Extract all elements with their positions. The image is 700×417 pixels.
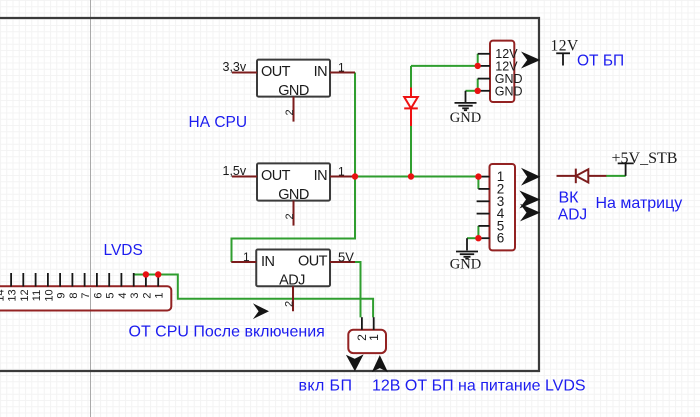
svg-text:OUT: OUT: [298, 254, 328, 270]
svg-text:GND: GND: [450, 110, 481, 126]
regulator U2 1.5v: [257, 163, 330, 202]
J2 pin 6 stub: [478, 237, 489, 239]
wire diode branch below diode: [410, 126, 412, 177]
svg-text:12В ОТ БП на питание LVDS: 12В ОТ БП на питание LVDS: [372, 378, 586, 395]
connector J3 LVDS box: [0, 286, 171, 310]
wire J2 gnd to ground symbol: [467, 237, 478, 239]
J2 pin 4 stub: [477, 213, 490, 215]
U1 pin OUT: [232, 72, 257, 74]
junction at J1 GND pins: [475, 88, 481, 94]
LVDS pin 9 stub: [59, 273, 61, 287]
LVDS pin 12 stub: [22, 273, 24, 287]
arrow to 12V flag: [521, 52, 540, 69]
svg-text:IN: IN: [314, 168, 327, 184]
svg-text:2: 2: [284, 213, 296, 219]
LVDS pin 2 stub: [145, 273, 147, 287]
wire U3 OUT 5V down to J3 pin2: [354, 262, 361, 317]
svg-text:5: 5: [105, 292, 117, 298]
svg-text:2: 2: [141, 292, 153, 298]
J2 pin 5 stub: [478, 225, 489, 227]
svg-text:IN: IN: [261, 254, 274, 270]
svg-text:1: 1: [154, 292, 166, 298]
svg-text:IN: IN: [314, 64, 327, 80]
U1 pin IN 1: [330, 72, 355, 74]
svg-text:1: 1: [243, 250, 250, 264]
wire U1 IN down to main node: [354, 73, 356, 177]
wire J1 pin3 drop to pin4 junction: [477, 79, 479, 91]
svg-text:1,5v: 1,5v: [223, 164, 247, 178]
svg-text:12: 12: [19, 289, 31, 301]
LVDS pin 10 stub: [47, 273, 49, 287]
connector J1 12V box: [490, 41, 523, 102]
J1 pin GND stub 3: [478, 78, 490, 80]
svg-text:2: 2: [284, 109, 296, 115]
svg-text:9: 9: [56, 292, 68, 298]
svg-text:14: 14: [0, 289, 6, 301]
U2 pin IN 1: [330, 176, 355, 178]
svg-text:вкл БП: вкл БП: [299, 378, 353, 395]
wire main node down and to U3 IN: [232, 177, 356, 263]
U2 pin OUT: [232, 176, 257, 178]
svg-text:ОТ CPU После включения: ОТ CPU После включения: [129, 324, 325, 341]
arrow OT CPU: [253, 303, 269, 319]
wire J1 pin1 drop to junction: [477, 54, 479, 66]
sheet border: [0, 18, 539, 371]
U3 pin IN 1: [231, 261, 256, 263]
arrow down to border: [346, 354, 364, 371]
LVDS pin 13 stub: [10, 273, 12, 287]
J2 pin 3 stub: [477, 200, 490, 202]
page frame gray vertical line: [90, 0, 92, 417]
svg-text:11: 11: [31, 290, 43, 301]
LVDS pin 11 stub: [35, 273, 37, 287]
diode D2 dark: [557, 169, 607, 184]
wire LVDS pins 3-2-1 to J3 pin1: [134, 275, 373, 318]
J2 pin 1 stub: [478, 176, 489, 178]
LVDS pin 6 stub: [96, 273, 98, 287]
U1 pin GND 2: [293, 97, 295, 122]
wire diode branch above diode: [410, 66, 412, 88]
svg-text:10: 10: [43, 289, 55, 301]
wire 12V net: diode branch top to connector J1: [411, 65, 478, 67]
power flag +5V_STB: [618, 163, 634, 176]
svg-text:ОТ БП: ОТ БП: [577, 52, 624, 69]
wire J2 pin5 down to pin6 junction: [477, 226, 479, 238]
junction at J2 pin 6: [475, 235, 481, 241]
LVDS pin 3 stub: [133, 273, 135, 287]
svg-text:+5V_STB: +5V_STB: [612, 150, 678, 167]
connector J2 6-pin box: [490, 164, 516, 250]
svg-text:13: 13: [7, 289, 19, 301]
ground symbol 2: [456, 238, 478, 259]
J1 pin 12V stub 1: [478, 53, 490, 55]
arrow up from border: [372, 355, 388, 372]
svg-text:ВК: ВК: [559, 189, 580, 206]
J1 pin GND stub 4: [478, 90, 490, 92]
wire J2 pin2 up to pin1 junction: [477, 177, 479, 189]
LVDS pin 4 stub: [120, 273, 122, 287]
LVDS pin 8 stub: [71, 273, 73, 287]
svg-text:7: 7: [80, 292, 92, 298]
wire main horizontal node to J2 pin1: [355, 176, 478, 178]
svg-text:12V: 12V: [551, 38, 580, 55]
svg-text:5V: 5V: [338, 250, 354, 265]
U2 pin GND 2: [293, 201, 295, 226]
svg-text:3,3v: 3,3v: [223, 60, 247, 74]
svg-text:8: 8: [68, 292, 80, 298]
svg-text:1: 1: [338, 61, 345, 75]
LVDS pin 7 stub: [84, 273, 86, 287]
junction at diode branch node: [408, 173, 414, 179]
J1 pin 12V stub 2: [478, 65, 490, 67]
svg-text:GND: GND: [278, 187, 309, 203]
svg-text:На матрицу: На матрицу: [596, 195, 683, 212]
ground symbol 1: [455, 91, 477, 110]
LVDS pin numbers: [0, 289, 166, 301]
LVDS pin 1 stub: [157, 273, 159, 287]
svg-text:OUT: OUT: [261, 64, 291, 80]
svg-text:ADJ: ADJ: [558, 207, 587, 224]
svg-text:GND: GND: [450, 257, 481, 273]
arrow BK: [519, 191, 540, 209]
regulator U3 adj: [256, 250, 330, 289]
power flag 12V: [556, 53, 570, 65]
U3 pin OUT 5V: [330, 261, 355, 263]
svg-text:LVDS: LVDS: [104, 242, 143, 259]
svg-text:1: 1: [367, 334, 381, 341]
svg-text:OUT: OUT: [261, 168, 291, 184]
junction at U1/U2/U3 IN node: [352, 173, 358, 179]
J4 pin 1 stub: [373, 317, 375, 330]
diode D1 red: [404, 88, 418, 127]
svg-text:4: 4: [117, 292, 129, 298]
junction at LVDS pin 2: [143, 271, 149, 277]
J4 pin 2 stub: [361, 317, 363, 330]
svg-text:НА CPU: НА CPU: [189, 114, 248, 131]
wire diode D2 to +5V_STB: [606, 175, 626, 177]
wire J1 gnd to ground symbol: [466, 90, 478, 92]
svg-text:3: 3: [129, 292, 141, 298]
svg-text:2: 2: [284, 301, 296, 307]
connector J4 2-pin box: [348, 330, 386, 353]
regulator U1 3.3v: [257, 60, 330, 99]
svg-text:GND: GND: [495, 84, 523, 98]
svg-text:6: 6: [497, 231, 505, 246]
arrow ADJ: [520, 204, 540, 222]
page frame gray line over LVDS box: [90, 288, 92, 310]
J2 pin 2 stub: [478, 188, 489, 190]
junction at LVDS pin 1: [155, 271, 161, 277]
U3 pin ADJ 2: [292, 286, 294, 311]
junction at J2 pin 1: [475, 173, 481, 179]
svg-text:6: 6: [92, 292, 104, 298]
LVDS pin 5 stub: [108, 273, 110, 287]
svg-text:1: 1: [338, 165, 345, 179]
junction at J1 12V pins: [475, 63, 481, 69]
arrow at J2 pin1: [521, 168, 540, 186]
